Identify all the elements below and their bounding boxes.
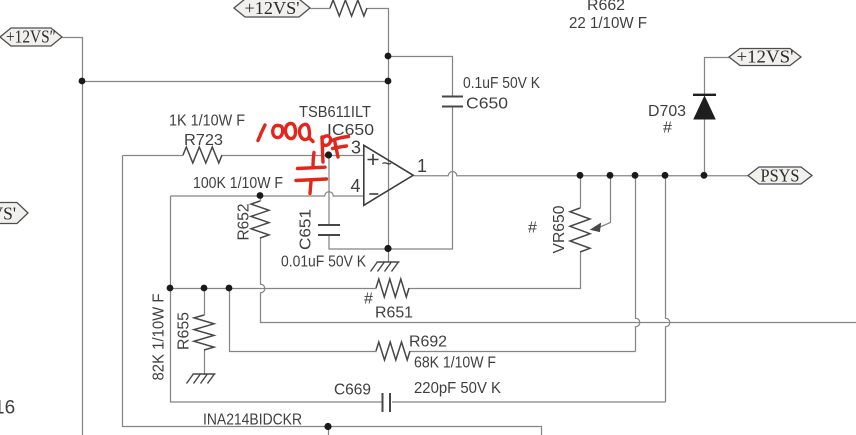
svg-text:#: #	[663, 120, 672, 137]
svg-text:0.1uF 50V K: 0.1uF 50V K	[463, 75, 540, 92]
svg-text:+12VS': +12VS'	[245, 0, 300, 18]
svg-text:R723: R723	[184, 132, 223, 149]
svg-text:R652: R652	[236, 203, 253, 240]
svg-text:100K 1/10W F: 100K 1/10W F	[193, 175, 283, 192]
svg-text:C669: C669	[334, 382, 371, 399]
svg-text:INA214BIDCKR: INA214BIDCKR	[203, 412, 302, 429]
svg-text:R662: R662	[587, 0, 625, 14]
svg-text:D703: D703	[648, 103, 686, 120]
svg-text:R692: R692	[409, 334, 447, 351]
svg-text:R655: R655	[176, 312, 193, 350]
svg-text:PSYS: PSYS	[761, 166, 800, 186]
svg-text:TSB611ILT: TSB611ILT	[299, 104, 371, 121]
svg-text:1: 1	[417, 156, 427, 176]
svg-text:1K 1/10W F: 1K 1/10W F	[169, 113, 245, 130]
svg-text:4: 4	[351, 176, 361, 196]
svg-text:#: #	[528, 220, 537, 237]
svg-text:0.01uF 50V K: 0.01uF 50V K	[281, 254, 366, 271]
svg-text:3: 3	[351, 138, 361, 158]
svg-text:+12VS': +12VS'	[0, 204, 16, 224]
svg-text:22 1/10W F: 22 1/10W F	[569, 15, 647, 32]
svg-text:VR650: VR650	[551, 205, 568, 253]
svg-text:16: 16	[0, 398, 15, 419]
svg-text:220pF 50V K: 220pF 50V K	[414, 380, 501, 397]
svg-text:68K 1/10W F: 68K 1/10W F	[414, 355, 496, 372]
svg-text:82K 1/10W F: 82K 1/10W F	[151, 293, 168, 380]
svg-text:~: ~	[382, 154, 393, 174]
svg-text:C650: C650	[466, 96, 508, 113]
svg-text:C651: C651	[298, 209, 315, 250]
svg-text:IC650: IC650	[327, 122, 374, 139]
svg-text:+12VS″: +12VS″	[6, 27, 56, 47]
svg-text:+12VS': +12VS'	[737, 47, 794, 67]
svg-text:#: #	[364, 291, 373, 308]
svg-text:R651: R651	[375, 305, 413, 322]
